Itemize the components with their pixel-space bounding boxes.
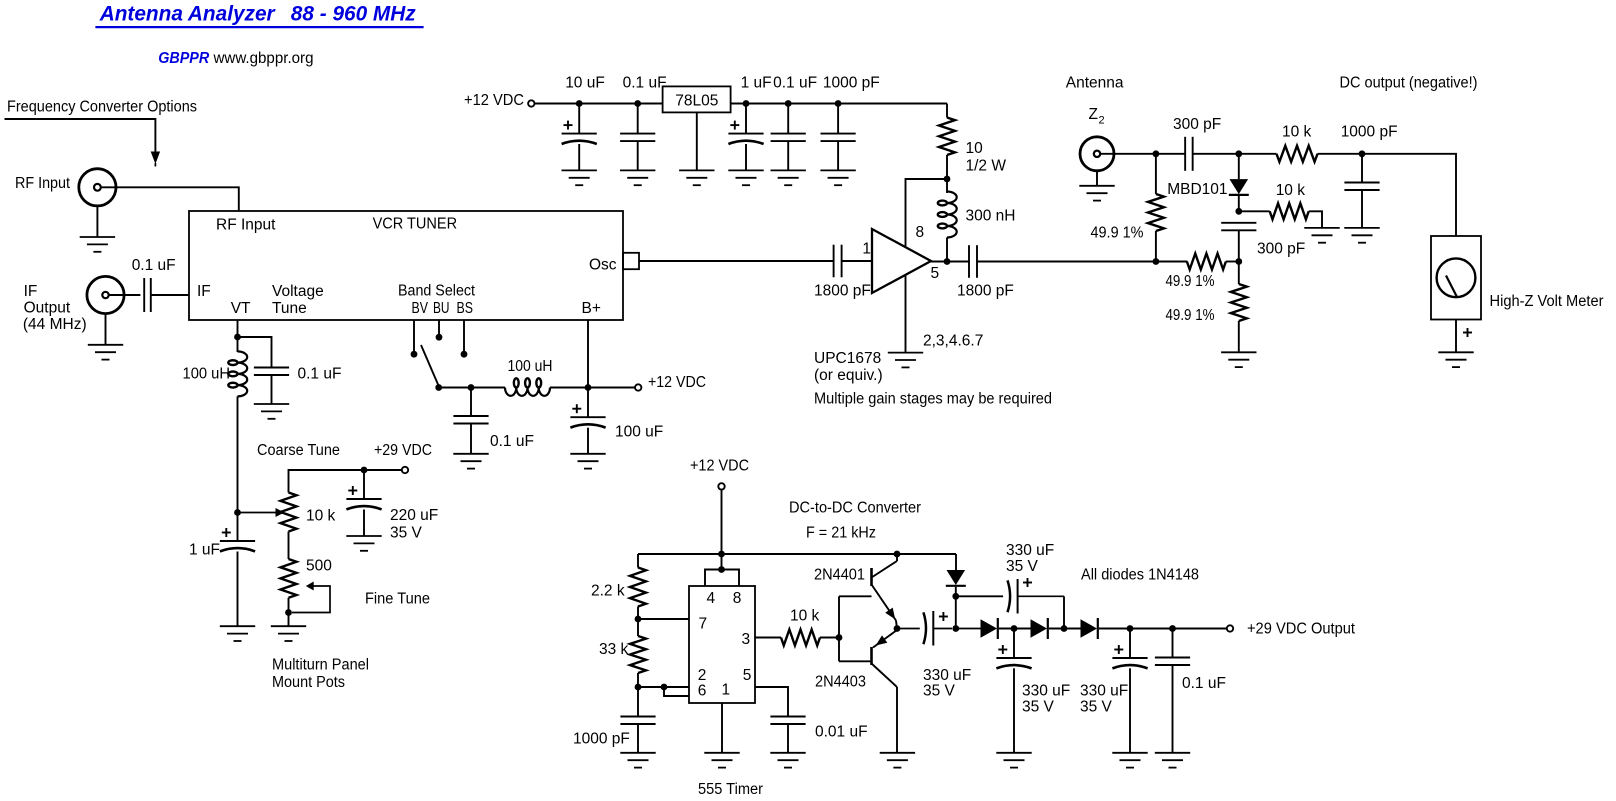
junction output cap 4 node xyxy=(1127,625,1134,632)
junction amp output node xyxy=(944,258,951,265)
svg-text:+29 VDC: +29 VDC xyxy=(374,442,432,459)
svg-text:0.1 uF: 0.1 uF xyxy=(298,366,342,383)
pin label 5 xyxy=(931,265,940,282)
svg-text:300 pF: 300 pF xyxy=(1257,241,1305,258)
junction pin 2/6 node xyxy=(635,684,642,691)
label Frequency Converter Options xyxy=(7,99,197,116)
wire amp ground pin xyxy=(905,275,907,353)
connector Z2 BNC xyxy=(1080,137,1114,171)
svg-text:2N4403: 2N4403 xyxy=(815,674,866,691)
svg-text:33 k: 33 k xyxy=(599,641,629,658)
wire 330uF 4 to ground xyxy=(1129,668,1131,753)
svg-text:RF Input: RF Input xyxy=(216,217,276,234)
capacitor 330 uF output 4 xyxy=(1112,645,1147,668)
ground 100uF xyxy=(570,454,605,469)
svg-text:Frequency Converter Options: Frequency Converter Options xyxy=(7,99,197,116)
label 2N4401 xyxy=(814,567,865,584)
svg-text:Tune: Tune xyxy=(272,300,307,317)
label 10 k load xyxy=(1276,182,1306,199)
label 1/2 W xyxy=(966,158,1007,175)
capacitor 10 uF electrolytic xyxy=(562,121,597,144)
svg-text:6: 6 xyxy=(698,683,707,700)
label 0.1 uF band xyxy=(490,433,534,450)
wire +12 rail left xyxy=(535,103,663,105)
svg-text:1/2 W: 1/2 W xyxy=(966,158,1007,175)
wire Z2 shell to ground xyxy=(1096,171,1098,186)
svg-text:+29 VDC Output: +29 VDC Output xyxy=(1247,621,1356,638)
url text www.gbppr.org xyxy=(213,50,314,67)
pin label 1 555 xyxy=(722,682,731,699)
svg-text:10 k: 10 k xyxy=(306,508,336,525)
svg-text:10 k: 10 k xyxy=(1276,182,1306,199)
label 33 k xyxy=(599,641,629,658)
svg-text:2.2 k: 2.2 k xyxy=(591,583,625,600)
wire 49.9 series to divider node xyxy=(1226,261,1239,263)
title underline xyxy=(95,26,423,28)
wire series cap 2 down xyxy=(1063,596,1065,628)
wire pin7 node to 33k xyxy=(637,619,639,636)
junction 10uF node xyxy=(576,100,583,107)
svg-text:1: 1 xyxy=(722,682,731,699)
label 0.01 uF xyxy=(815,724,868,741)
label 35 V series 1 xyxy=(923,683,956,700)
svg-text:10 uF: 10 uF xyxy=(565,75,605,92)
terminal +12 VDC xyxy=(528,100,534,106)
ground fine pot xyxy=(271,626,306,641)
switch arm band select xyxy=(421,345,439,386)
label 35 V 220uF xyxy=(390,524,423,541)
junction emitter node xyxy=(894,625,901,632)
ground Z2 xyxy=(1079,186,1114,201)
label Antenna xyxy=(1066,75,1124,92)
svg-text:8: 8 xyxy=(733,590,742,607)
label 0.1 uF IF cap xyxy=(132,257,176,274)
wire 300nH bottom lead xyxy=(946,238,948,262)
svg-text:DC output (negative!): DC output (negative!) xyxy=(1340,75,1478,92)
pin label Osc xyxy=(589,256,617,273)
wire 555 rail xyxy=(638,553,956,555)
wire to volt meter xyxy=(1362,154,1456,236)
junction supply rail node xyxy=(718,551,725,558)
wire coupling cap to IF pin xyxy=(151,294,189,296)
label 49.9 1% shunt xyxy=(1091,225,1144,242)
wire 1uF to ground xyxy=(237,552,239,627)
label 35 V series 2 xyxy=(1006,558,1039,575)
wire IF BNC shell to ground xyxy=(105,314,107,345)
junction Z2 node xyxy=(1153,150,1160,157)
svg-text:0.01 uF: 0.01 uF xyxy=(815,724,868,741)
wire Z2 node to 49.9 resistor xyxy=(1155,154,1157,194)
wire base node vertical xyxy=(838,596,840,661)
svg-text:1000 pF: 1000 pF xyxy=(1341,124,1398,141)
label +29 VDC pot xyxy=(374,442,432,459)
label Mount Pots xyxy=(272,674,345,691)
svg-text:330 uF: 330 uF xyxy=(923,667,971,684)
wire 100uF lead xyxy=(587,388,589,418)
label +12 VDC 555 xyxy=(690,458,749,475)
svg-text:Coarse Tune: Coarse Tune xyxy=(257,442,340,459)
wire pot top to +29 terminal xyxy=(289,470,402,493)
label High-Z Volt Meter xyxy=(1490,293,1604,310)
wire 330uF 4 lead xyxy=(1129,629,1131,659)
svg-text:Output: Output xyxy=(24,299,71,316)
inductor 300 nH xyxy=(938,192,957,238)
capacitor 1000 pF output xyxy=(1344,183,1379,191)
pin label RF Input (tuner) xyxy=(216,217,276,234)
svg-text:2: 2 xyxy=(698,667,707,684)
wire 10uF cap lead xyxy=(578,104,580,134)
wire between pots xyxy=(288,532,290,560)
ground IF output xyxy=(88,345,123,360)
svg-text:330 uF: 330 uF xyxy=(1022,683,1070,700)
junction pump node 2 xyxy=(1061,625,1068,632)
pin Osc square xyxy=(623,253,639,269)
label +29 VDC Output xyxy=(1247,621,1356,638)
capacitor 1 uF electrolytic tuning xyxy=(220,528,255,551)
diode D4 1N4148 xyxy=(1081,618,1098,639)
capacitor 330 uF output 3 xyxy=(996,645,1031,668)
resistor 10 k load xyxy=(1270,203,1309,219)
junction VT node xyxy=(234,334,241,341)
label +12 VDC rail xyxy=(464,92,524,109)
ground 1uF xyxy=(728,170,763,185)
terminal +12 VDC 555 xyxy=(718,483,724,489)
svg-text:220 uF: 220 uF xyxy=(390,507,438,524)
wire 0.1uF out lead xyxy=(1172,629,1174,658)
capacitor 300 pF series xyxy=(1185,137,1193,171)
ground 10k load xyxy=(1304,228,1339,243)
note all diodes 1N4148 xyxy=(1081,567,1199,584)
label 10 k coarse xyxy=(306,508,336,525)
wire D4 to output xyxy=(1099,628,1226,630)
svg-text:Multiple gain stages may be re: Multiple gain stages may be required xyxy=(814,391,1052,408)
wire 10k to 1000pF node xyxy=(1318,153,1363,155)
wire MBD node to 10k xyxy=(1239,153,1277,155)
pin label 1 xyxy=(862,241,871,258)
svg-text:555 Timer: 555 Timer xyxy=(698,781,763,798)
junction detector node xyxy=(1235,208,1242,215)
label Multiturn Panel xyxy=(272,657,369,674)
ground divider xyxy=(1221,352,1256,367)
svg-text:1 uF: 1 uF xyxy=(189,542,220,559)
potentiometer 10 k coarse xyxy=(281,493,297,532)
wire 300pF filter to node xyxy=(1238,230,1240,261)
terminal +12 VDC feed xyxy=(635,384,641,390)
transistor Q1 2N4401 xyxy=(872,554,898,629)
svg-text:0.1 uF: 0.1 uF xyxy=(623,75,667,92)
junction 1uF node xyxy=(743,100,750,107)
ground 0.01uF xyxy=(770,753,805,768)
svg-text:35 V: 35 V xyxy=(390,524,423,541)
svg-text:DC-to-DC Converter: DC-to-DC Converter xyxy=(789,500,921,517)
wire VT pin down xyxy=(237,320,239,352)
svg-text:www.gbppr.org: www.gbppr.org xyxy=(213,50,314,67)
junction 1000pF node xyxy=(835,100,842,107)
wire divider node down xyxy=(1238,262,1240,285)
wire 2.2k to pin7 node xyxy=(637,607,639,620)
svg-text:BS: BS xyxy=(457,300,474,317)
svg-text:4: 4 xyxy=(707,590,716,607)
wire 220uF lead xyxy=(363,470,365,499)
terminal +29 VDC xyxy=(402,467,408,473)
label 300 pF series xyxy=(1173,116,1221,133)
label (or equiv.) xyxy=(814,367,883,384)
junction BV contact xyxy=(411,351,418,358)
svg-text:5: 5 xyxy=(743,667,752,684)
ground 0.1uF VT xyxy=(254,404,289,419)
wire BS pin xyxy=(463,320,465,351)
junction output 0.1uF node xyxy=(1169,625,1176,632)
wire 330uF 3 lead xyxy=(1013,629,1015,659)
wire 0.1uF VT to ground xyxy=(271,375,273,404)
logo text GBPPR xyxy=(158,50,210,67)
label 100 uH VT xyxy=(183,366,231,383)
wire 1000pF timing lead xyxy=(637,687,639,717)
svg-text:35 V: 35 V xyxy=(1022,699,1055,716)
capacitor 1800 pF input xyxy=(834,245,842,278)
wire 78L05 ground pin xyxy=(696,112,698,170)
label Voltage xyxy=(272,283,324,300)
ground 555 xyxy=(704,753,739,768)
capacitor 0.1 uF bypass 1 xyxy=(620,134,655,142)
label 2.2 k xyxy=(591,583,625,600)
label 10 uF xyxy=(565,75,605,92)
junction pin2 pin6 tie xyxy=(661,684,668,691)
wire rail to 10 ohm resistor xyxy=(946,104,948,118)
svg-text:VT: VT xyxy=(231,300,251,317)
label 0.1 uF bypass 2 xyxy=(773,75,817,92)
junction pump node 1 xyxy=(952,625,959,632)
capacitor 1000 pF timing xyxy=(620,717,655,725)
capacitor 330 uF series 2 xyxy=(1008,578,1065,614)
svg-text:+12 VDC: +12 VDC xyxy=(464,92,524,109)
label Tune xyxy=(272,300,307,317)
svg-text:100 uH: 100 uH xyxy=(508,358,553,375)
capacitor 1800 pF output xyxy=(969,245,977,278)
label Fine Tune xyxy=(365,591,430,608)
label 300 nH xyxy=(966,208,1016,225)
wire RF BNC shell to ground xyxy=(96,206,98,237)
svg-text:BV: BV xyxy=(412,300,429,317)
svg-text:2,3,4.6.7: 2,3,4.6.7 xyxy=(923,333,983,350)
pin label 2 xyxy=(698,667,707,684)
capacitor 220 uF electrolytic xyxy=(346,486,381,509)
label VCR TUNER xyxy=(373,215,458,232)
junction pin8 node xyxy=(944,176,951,183)
junction switch pivot xyxy=(435,384,442,391)
wire pin 1 to ground xyxy=(721,703,723,753)
svg-text:Mount Pots: Mount Pots xyxy=(272,674,345,691)
label DC output (negative!) xyxy=(1340,75,1478,92)
polarity plus meter xyxy=(1463,328,1472,337)
svg-text:2: 2 xyxy=(1099,115,1105,127)
label Z subscript 2 xyxy=(1099,115,1105,127)
label Coarse Tune xyxy=(257,442,340,459)
pin label 2,3,4.6.7 xyxy=(923,333,983,350)
label 330 uF series 2 xyxy=(1006,542,1054,559)
wire 300nH top lead xyxy=(946,179,948,193)
svg-text:0.1 uF: 0.1 uF xyxy=(773,75,817,92)
diode D3 1N4148 xyxy=(1031,618,1048,639)
wiper arrow coarse tune xyxy=(238,508,285,517)
IC 555 timer box xyxy=(689,586,755,703)
label 78L05 xyxy=(675,93,718,110)
label UPC1678 xyxy=(814,350,881,367)
capacitor 0.1 uF output xyxy=(1155,658,1190,666)
wire D3 to D4 xyxy=(1049,628,1081,630)
label IF xyxy=(24,283,38,300)
wire 1000pF timing to ground xyxy=(637,724,639,753)
pin label 5 555 xyxy=(743,667,752,684)
wire pin 5 out xyxy=(755,687,788,717)
wire 100uH to B+ node xyxy=(550,387,635,389)
label 0.1 uF output xyxy=(1182,675,1226,692)
ground 330uF 3 xyxy=(996,753,1031,768)
wire +12 rail right of 78L05 xyxy=(731,103,947,105)
pin label 6 xyxy=(698,683,707,700)
note multiple gain stages xyxy=(814,391,1052,408)
wire node to 10k load xyxy=(1239,210,1270,212)
junction fine wiper to bottom xyxy=(285,609,292,616)
ground RF input xyxy=(80,237,115,252)
svg-text:0.1 uF: 0.1 uF xyxy=(1182,675,1226,692)
svg-text:10: 10 xyxy=(966,140,984,157)
inductor 100 uH feed xyxy=(505,378,550,396)
wire BV pin xyxy=(413,320,415,351)
connector IF Output BNC xyxy=(87,276,124,313)
label 100 uF xyxy=(615,424,663,441)
ground 1000pF timing xyxy=(620,753,655,768)
junction base node xyxy=(836,634,843,641)
ground 0.1uF band xyxy=(453,454,488,469)
capacitor 100 uF electrolytic xyxy=(570,404,605,427)
capacitor 0.01 uF xyxy=(770,717,805,725)
op-amp UPC1678 triangle xyxy=(872,229,931,293)
label +12 VDC feed xyxy=(648,374,706,391)
junction output cap 3 node xyxy=(1011,625,1018,632)
wire 10k load to ground xyxy=(1309,211,1322,228)
IC 78L05 box xyxy=(663,86,731,112)
pin label B+ xyxy=(582,300,601,317)
svg-text:B+: B+ xyxy=(582,300,601,317)
junction 0.1uF node xyxy=(634,100,641,107)
label 1000 pF timing xyxy=(573,731,630,748)
label 2N4403 xyxy=(815,674,866,691)
wire 100uF to ground xyxy=(587,428,589,454)
pin label 4 xyxy=(707,590,716,607)
label 0.1 uF VT xyxy=(298,366,342,383)
svg-text:VCR TUNER: VCR TUNER xyxy=(373,215,458,232)
junction D1 cathode xyxy=(952,593,959,600)
wire 500 pot to ground xyxy=(288,598,290,626)
label 1 uF xyxy=(741,75,772,92)
label 330 uF output 3 xyxy=(1022,683,1070,700)
svg-text:3: 3 xyxy=(742,631,751,648)
label 49.9 1% lower xyxy=(1166,307,1215,324)
ground 0.1uF output xyxy=(1155,753,1190,768)
wire 220uF to ground xyxy=(363,510,365,537)
wire 10k base to node xyxy=(820,637,839,639)
label 1800 pF output xyxy=(957,283,1014,300)
ground 1000pF output xyxy=(1344,228,1379,243)
capacitor 0.1 uF bypass 2 xyxy=(771,134,806,142)
ground 1uF tuning xyxy=(220,626,255,641)
svg-text:49.9 1%: 49.9 1% xyxy=(1166,273,1215,290)
pin label 3 xyxy=(742,631,751,648)
wire rail to 2.2k xyxy=(637,554,639,568)
svg-text:IF: IF xyxy=(197,283,211,300)
svg-text:100 uF: 100 uF xyxy=(615,424,663,441)
potentiometer 500 fine xyxy=(281,559,297,598)
wire 0.1uF to ground xyxy=(637,141,639,170)
wire 49.9 lower to ground xyxy=(1238,321,1240,352)
label 35 V output 3 xyxy=(1022,699,1055,716)
label 35 V output 4 xyxy=(1080,699,1113,716)
label 1800 pF input xyxy=(814,283,871,300)
title text Antenna Analyzer 88 - 960 MHz xyxy=(99,2,416,26)
wire output cap to Z2 node xyxy=(977,261,1188,263)
transistor Q2 2N4403 xyxy=(872,630,898,753)
svg-text:MBD101: MBD101 xyxy=(1167,181,1227,198)
wire node to MBD101 xyxy=(1238,154,1240,179)
wire to pin2/6 junction xyxy=(638,686,664,688)
wire band 0.1uF to ground xyxy=(470,424,472,454)
svg-text:49.9 1%: 49.9 1% xyxy=(1166,307,1215,324)
svg-text:300 pF: 300 pF xyxy=(1173,116,1221,133)
label 100 uH feed xyxy=(508,358,553,375)
resistor 49.9 ohm 1% lower xyxy=(1231,284,1247,321)
wire IF BNC to coupling cap xyxy=(109,294,140,296)
label Band Select xyxy=(398,282,476,299)
junction pin 7 node xyxy=(635,616,642,623)
svg-text:78L05: 78L05 xyxy=(675,93,718,110)
wire 0.1uF cap lead xyxy=(637,104,639,134)
pin label IF xyxy=(197,283,211,300)
label F = 21 kHz xyxy=(806,525,876,542)
svg-text:35 V: 35 V xyxy=(923,683,956,700)
wire 1000pF cap lead xyxy=(837,104,839,134)
svg-text:500: 500 xyxy=(306,558,332,575)
wire base to 2N4403 xyxy=(839,660,872,662)
svg-text:0.1 uF: 0.1 uF xyxy=(132,257,176,274)
wire 0.1uF 2 to ground xyxy=(787,141,789,170)
svg-text:100 uH: 100 uH xyxy=(183,366,231,383)
resistor 33 k xyxy=(630,636,646,673)
svg-text:(44 MHz): (44 MHz) xyxy=(23,316,87,333)
label 10 k base xyxy=(790,608,820,625)
wire 330uF 3 to ground xyxy=(1013,668,1015,753)
wire meter to ground xyxy=(1455,320,1457,353)
wire D1 to pump node xyxy=(955,587,957,629)
label 1000 pF xyxy=(823,75,880,92)
wire MBD101 to node xyxy=(1238,196,1240,212)
ground UPC1678 xyxy=(888,353,923,368)
pin label BS xyxy=(457,300,474,317)
wire D2 to D3 xyxy=(999,628,1031,630)
wire 1000pF to ground xyxy=(837,141,839,170)
label 300 pF filter xyxy=(1257,241,1305,258)
svg-text:Antenna: Antenna xyxy=(1066,75,1124,92)
diode D1 1N4148 xyxy=(946,570,966,586)
pin label BU xyxy=(433,300,450,317)
svg-text:Z: Z xyxy=(1089,106,1098,123)
capacitor 0.1 uF band select xyxy=(453,416,488,424)
wire 10 ohm to node xyxy=(946,155,948,179)
svg-text:1800 pF: 1800 pF xyxy=(814,283,871,300)
wire 0.01uF to ground xyxy=(787,724,789,753)
terminal +29 VDC output xyxy=(1227,625,1233,631)
svg-text:Antenna Analyzer 88 - 960 MHz: Antenna Analyzer 88 - 960 MHz xyxy=(99,2,416,26)
